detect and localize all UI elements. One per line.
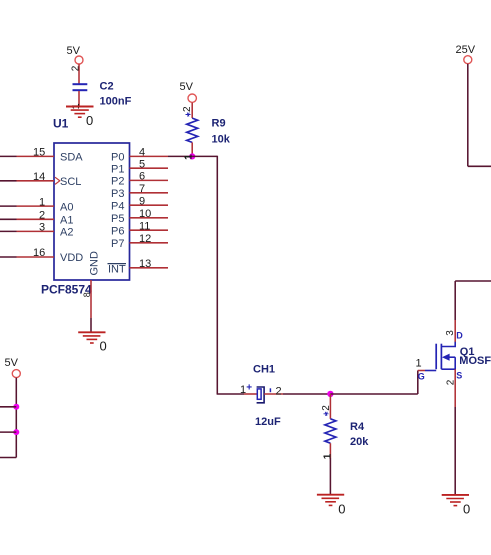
ground 0 at R4 xyxy=(317,495,346,517)
svg-text:A2: A2 xyxy=(60,227,73,239)
pin 2 of Q1 (source lead) xyxy=(446,369,463,407)
pin 1 of C2 (bottom lead) xyxy=(71,91,82,109)
svg-text:P2: P2 xyxy=(111,176,124,188)
svg-text:A1: A1 xyxy=(60,215,73,227)
pin 15 SDA xyxy=(17,147,84,164)
resistor R4 xyxy=(325,419,336,443)
svg-text:100nF: 100nF xyxy=(100,96,132,108)
svg-text:25V: 25V xyxy=(456,44,476,56)
CH1 refdes label xyxy=(253,364,275,376)
svg-text:9: 9 xyxy=(139,195,145,207)
svg-text:C2: C2 xyxy=(100,81,114,93)
svg-text:S: S xyxy=(456,370,462,380)
pin 2 of C2 (top lead) xyxy=(70,64,81,84)
wire CH1 to junction at R4 xyxy=(283,393,330,395)
wire to A0 (left edge) xyxy=(0,205,17,207)
svg-text:12: 12 xyxy=(139,233,151,245)
GND pin name (rotated) xyxy=(89,251,101,276)
CH1 value label xyxy=(255,416,281,428)
svg-text:SCL: SCL xyxy=(60,176,81,188)
svg-text:7: 7 xyxy=(139,183,145,195)
svg-text:1: 1 xyxy=(240,384,246,396)
pin 8 GND lead below U1 xyxy=(82,280,92,318)
C2 value labels xyxy=(100,81,132,108)
pin 7 P3 xyxy=(111,183,168,200)
svg-text:12uF: 12uF xyxy=(255,416,281,428)
pin 1 of Q1 (gate lead) xyxy=(416,358,426,382)
pin 1 of CH1 (+) xyxy=(240,382,257,396)
ground 0 at U1 xyxy=(78,332,107,353)
pin 12 P7 xyxy=(111,233,168,250)
R4 value labels xyxy=(350,421,369,448)
wire junction to gate corner xyxy=(330,393,417,395)
wire 25V down xyxy=(467,64,469,167)
svg-text:10k: 10k xyxy=(212,134,231,146)
svg-text:R4: R4 xyxy=(350,421,365,433)
wire up to Q1 gate xyxy=(417,371,419,395)
svg-text:A0: A0 xyxy=(60,201,73,213)
svg-text:D: D xyxy=(456,331,463,341)
svg-text:0: 0 xyxy=(338,501,345,516)
wire down to Q1 drain xyxy=(454,281,456,320)
pin 13 INT xyxy=(108,258,169,276)
svg-text:1: 1 xyxy=(416,358,422,370)
pin 5 P1 xyxy=(111,158,168,175)
IC U1 PCF8574 body xyxy=(54,143,130,280)
pin 2 of CH1 xyxy=(264,386,283,398)
svg-text:1: 1 xyxy=(39,196,45,208)
power 5V symbol (left block) xyxy=(5,357,21,378)
wire junction to right corner xyxy=(192,155,217,157)
wire 25V to right edge xyxy=(468,165,491,167)
power 5V symbol above R9 xyxy=(180,81,197,102)
wire to left edge bottom xyxy=(0,457,16,459)
node junction at R9 / P0 xyxy=(189,153,195,159)
svg-text:1: 1 xyxy=(323,453,334,459)
svg-text:G: G xyxy=(418,371,425,381)
wire to left edge upper xyxy=(0,406,16,408)
wire from right edge to drain branch xyxy=(455,280,491,282)
capacitor CH1 (polarized) xyxy=(257,387,265,403)
pin 3 of Q1 (drain lead) xyxy=(445,320,464,342)
pin 1 of R4 (bottom lead) xyxy=(323,443,334,459)
wire P0 to junction xyxy=(168,154,195,160)
svg-text:VDD: VDD xyxy=(60,252,83,264)
svg-text:2: 2 xyxy=(321,405,332,411)
svg-text:R9: R9 xyxy=(212,118,226,130)
pin 4 P0 xyxy=(111,147,168,164)
capacitor C2 xyxy=(73,84,88,90)
wire to SDA (left edge) xyxy=(0,155,17,157)
svg-text:5V: 5V xyxy=(5,357,19,369)
svg-text:10: 10 xyxy=(139,208,151,220)
svg-text:P1: P1 xyxy=(111,163,124,175)
svg-text:2: 2 xyxy=(70,65,81,71)
node junction upper (left block) xyxy=(13,404,19,410)
resistor R9 xyxy=(187,118,198,142)
svg-text:15: 15 xyxy=(33,147,45,159)
wire pin8 to ground xyxy=(90,318,92,332)
pin 6 P2 xyxy=(111,171,168,188)
svg-text:2: 2 xyxy=(182,106,193,112)
svg-text:2: 2 xyxy=(446,379,457,385)
pin 11 P6 xyxy=(111,220,168,237)
pin 3 A2 xyxy=(17,222,74,239)
pin 14 SCL with clock chevron xyxy=(17,171,82,188)
svg-text:16: 16 xyxy=(33,247,45,259)
wire to left edge lower xyxy=(0,431,16,433)
svg-text:13: 13 xyxy=(139,258,151,270)
svg-text:5: 5 xyxy=(139,158,145,170)
ground 0 at C2 xyxy=(66,107,94,128)
wire corner to CH1 pin 1 xyxy=(217,393,244,395)
svg-text:5V: 5V xyxy=(180,81,194,93)
svg-text:P7: P7 xyxy=(111,238,124,250)
power 5V symbol above C2 xyxy=(67,45,84,64)
pin 10 P5 xyxy=(111,208,168,225)
svg-text:P3: P3 xyxy=(111,188,124,200)
wire Q1 source to ground xyxy=(454,407,456,495)
pin 1 of R9 (bottom lead) xyxy=(184,142,195,159)
svg-text:MOSFET_N: MOSFET_N xyxy=(459,355,491,367)
node junction CH1/R4/gate xyxy=(327,391,333,397)
svg-text:2: 2 xyxy=(276,386,282,398)
svg-text:0: 0 xyxy=(463,502,470,517)
wire to SCL (left edge) xyxy=(0,180,17,182)
svg-text:3: 3 xyxy=(39,222,45,234)
wire 5V down (left block) xyxy=(15,378,17,458)
R9 value labels xyxy=(212,118,231,146)
svg-text:14: 14 xyxy=(33,171,45,183)
pin 1 A0 xyxy=(17,196,74,213)
wire R4 to ground xyxy=(329,458,331,495)
pin 2 A1 xyxy=(17,210,74,227)
wire to VDD (left edge) xyxy=(0,256,17,258)
pin 2 of R4 (top lead) xyxy=(321,394,332,419)
svg-text:P4: P4 xyxy=(111,200,124,212)
svg-text:INT: INT xyxy=(108,264,126,276)
wire to A1 (left edge) xyxy=(0,218,17,220)
svg-text:3: 3 xyxy=(445,330,456,336)
pin 16 VDD xyxy=(17,247,84,264)
wire down right of R9 xyxy=(216,156,218,394)
svg-text:6: 6 xyxy=(139,171,145,183)
svg-text:P6: P6 xyxy=(111,225,124,237)
svg-text:5V: 5V xyxy=(67,45,81,57)
pin 9 P4 xyxy=(111,195,168,212)
svg-text:20k: 20k xyxy=(350,436,369,448)
node junction lower (left block) xyxy=(13,429,19,435)
svg-text:4: 4 xyxy=(139,147,145,159)
svg-text:8: 8 xyxy=(82,292,92,297)
ground 0 at Q1 source xyxy=(442,495,471,517)
Q1 refdes and part labels xyxy=(459,346,491,367)
transistor Q1 MOSFET N xyxy=(425,342,455,371)
U1 refdes label xyxy=(53,117,69,131)
pin 2 of R9 (top lead) xyxy=(182,103,193,119)
svg-text:2: 2 xyxy=(39,210,45,222)
svg-text:U1: U1 xyxy=(53,117,69,131)
svg-text:GND: GND xyxy=(89,251,101,276)
power 25V symbol xyxy=(456,44,476,64)
wire to A2 (left edge) xyxy=(0,230,17,232)
svg-text:0: 0 xyxy=(86,113,93,128)
svg-text:P0: P0 xyxy=(111,152,124,164)
svg-text:SDA: SDA xyxy=(60,152,83,164)
svg-text:0: 0 xyxy=(100,339,107,354)
svg-text:11: 11 xyxy=(139,220,150,232)
svg-text:P5: P5 xyxy=(111,213,124,225)
svg-text:+: + xyxy=(246,382,252,393)
svg-text:CH1: CH1 xyxy=(253,364,275,376)
U1 part name PCF8574 xyxy=(41,283,92,297)
